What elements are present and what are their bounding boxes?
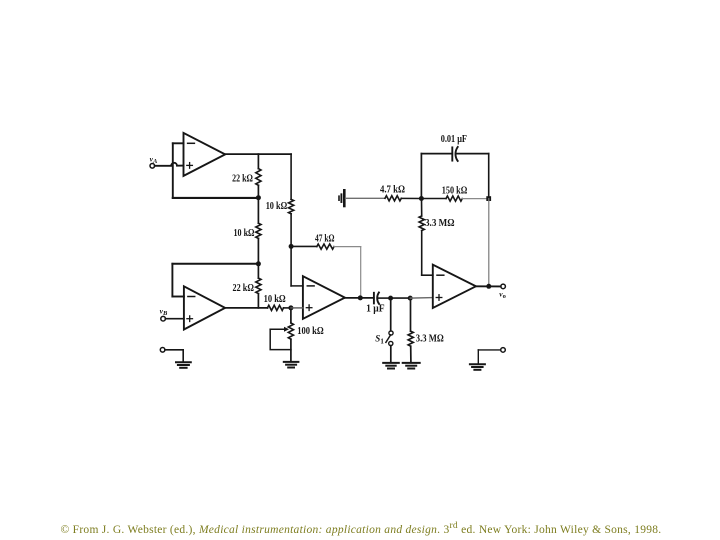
svg-text:100 kΩ: 100 kΩ: [297, 326, 324, 337]
wire U4 inverting input w/ resistor R8 3.3 MOhm: [419, 199, 454, 276]
terminal ground-right: [501, 348, 506, 353]
wire U3 output: [345, 297, 374, 299]
terminal vo: [499, 284, 506, 300]
svg-text:150 kΩ: 150 kΩ: [442, 186, 468, 197]
svg-text:10 kΩ: 10 kΩ: [234, 228, 255, 239]
wire vB to U2 + input: [165, 318, 184, 320]
op-amp U4: [433, 265, 476, 308]
node B: [256, 261, 261, 266]
ground (potentiometer): [284, 362, 299, 368]
capacitor C1 1 uF: [366, 293, 391, 315]
node D (U3 + input): [288, 305, 293, 310]
node switch: [388, 296, 393, 301]
wire U1 feedback (inverting input loop): [173, 143, 184, 198]
resistor R1 22 kOhm: [232, 154, 261, 198]
svg-text:vo: vo: [499, 289, 506, 300]
op-amp U2: [184, 286, 225, 329]
terminal vA: [150, 154, 158, 168]
wire node A to U1 feedback: [173, 197, 259, 199]
svg-text:vA: vA: [150, 154, 158, 165]
wire U1 output: [225, 153, 291, 155]
svg-text:S1: S1: [375, 334, 384, 346]
capacitor C2 0.01 uF (U4 feedback): [421, 134, 488, 199]
resistor R9 4.7 kOhm: [346, 184, 422, 201]
wire U2 output: [225, 307, 268, 309]
wire node F to U4 output: [488, 199, 490, 287]
wire to U4 + input: [410, 297, 433, 300]
node A: [256, 195, 261, 200]
svg-text:10 kΩ: 10 kΩ: [266, 201, 288, 212]
svg-text:22 kΩ: 22 kΩ: [232, 173, 253, 184]
resistor R2 10 kOhm (between nodes): [234, 198, 262, 264]
node C (U3 inverting node): [289, 244, 294, 249]
node U4 output: [486, 284, 491, 289]
wire U4 output: [476, 285, 501, 287]
svg-text:0.01 μF: 0.01 μF: [441, 134, 467, 145]
svg-text:4.7 kΩ: 4.7 kΩ: [380, 184, 405, 195]
resistor R3 22 kOhm: [233, 264, 262, 308]
switch S1: [375, 298, 393, 362]
wire ground-left: [165, 350, 183, 362]
resistor R7 3.3 MOhm (to ground): [408, 298, 444, 362]
terminal vB: [160, 307, 168, 321]
svg-text:1 μF: 1 μF: [366, 304, 385, 315]
ground (right electrode): [470, 364, 485, 370]
svg-text:47 kΩ: 47 kΩ: [315, 234, 335, 245]
svg-text:3.3 MΩ: 3.3 MΩ: [425, 218, 455, 229]
resistor R5 10 kOhm (horizontal): [264, 294, 291, 311]
node 3.3M / U4 + input: [408, 296, 413, 301]
ground (input, sideways): [339, 190, 344, 206]
op-amp U1: [184, 133, 226, 176]
op-amp U3: [303, 276, 345, 319]
wire node D to U3 + input: [291, 307, 303, 309]
wire ground-right: [478, 350, 501, 364]
node U3 output: [358, 295, 363, 300]
ground (3.3 MOhm): [403, 363, 420, 369]
wire cap node to 3.3M node: [391, 297, 411, 299]
wire vA to U1 + input (with crossover hop): [155, 163, 184, 166]
node F (150k right, square): [486, 196, 491, 201]
terminal ground-left: [160, 348, 165, 353]
svg-text:10 kΩ: 10 kΩ: [264, 294, 286, 305]
node E (150k left): [419, 196, 424, 201]
svg-text:3.3 MΩ: 3.3 MΩ: [416, 334, 444, 345]
wire node C to U3 inverting input: [291, 246, 303, 286]
ground (left electrode): [176, 362, 191, 368]
caption: [61, 518, 720, 538]
svg-text:vB: vB: [160, 307, 168, 318]
potentiometer 100 kOhm: [270, 308, 324, 362]
ground (switch S1): [383, 363, 399, 369]
resistor R6 47 kOhm (U3 feedback): [291, 234, 361, 298]
svg-text:22 kΩ: 22 kΩ: [233, 283, 254, 294]
wire node B to U2 feedback: [172, 264, 257, 297]
resistor R4 10 kOhm (U1 output to U3 inverting): [266, 154, 294, 246]
resistor R10 150 kOhm: [421, 186, 488, 202]
